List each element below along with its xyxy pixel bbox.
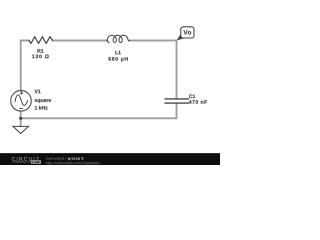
voltage source V1 waveform [15,95,28,106]
inductor L1 [107,35,130,42]
value 470 nF [189,100,207,104]
resistor R1 [29,37,53,44]
label R1 [37,49,43,53]
wire R1 to L1 [52,40,107,42]
ground symbol [13,126,29,133]
watermark logo squiggle [12,161,30,163]
watermark logo LAB box [31,160,41,164]
junction node [19,117,22,120]
net flag Vo box [181,27,194,38]
wire junction to ground [20,118,22,126]
wire V1 bottom lead [20,111,22,118]
wire right vertical upper [176,41,178,99]
capacitor C1 plate top [165,98,189,100]
capacitor C1 plate bottom [165,102,189,104]
wire C1 to bottom corner [176,104,178,119]
watermark text line 1 [46,157,67,161]
wire bottom [21,117,177,119]
watermark logo CIRCUIT [12,157,39,161]
label C1 [189,94,195,98]
value 680 uH [108,57,127,62]
watermark bar [0,153,220,165]
voltage source V1 circle [11,91,32,112]
value 130 ohm [32,55,48,59]
net flag Vo pointer [177,35,185,41]
voltage source V1 minus sign [20,108,23,110]
value 1 kHz [35,106,48,110]
label L1 [115,51,120,55]
label V1 [35,90,41,94]
watermark logo LAB text [32,161,39,163]
value square [35,99,51,103]
net flag Vo label [183,30,191,34]
wire top-left to R1 [21,40,30,42]
wire left vertical [20,41,22,91]
watermark text line 2 [46,161,100,165]
wire L1 to Vo corner [130,40,177,42]
voltage source V1 plus sign [20,92,23,95]
